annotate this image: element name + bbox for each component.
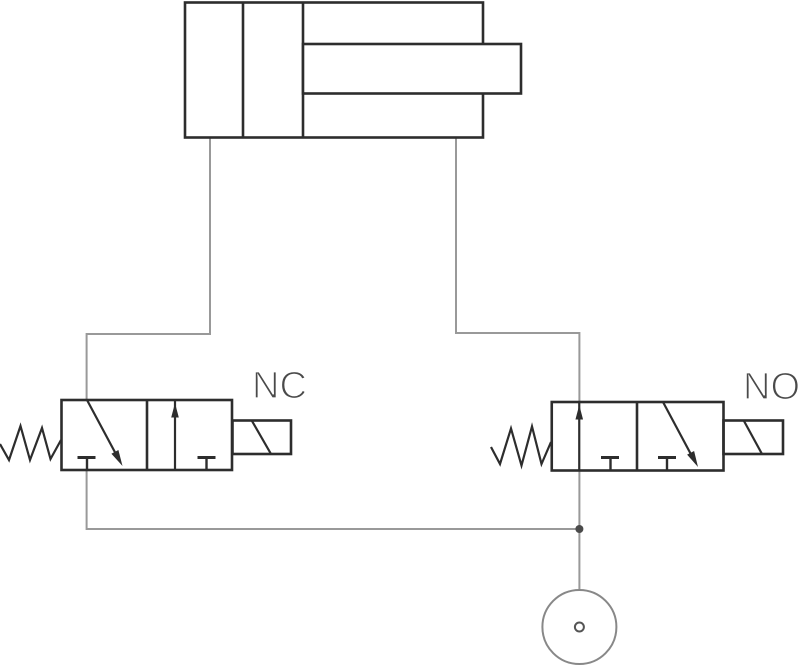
svg-text:NC: NC [252, 365, 307, 407]
svg-text:NO: NO [743, 366, 800, 408]
